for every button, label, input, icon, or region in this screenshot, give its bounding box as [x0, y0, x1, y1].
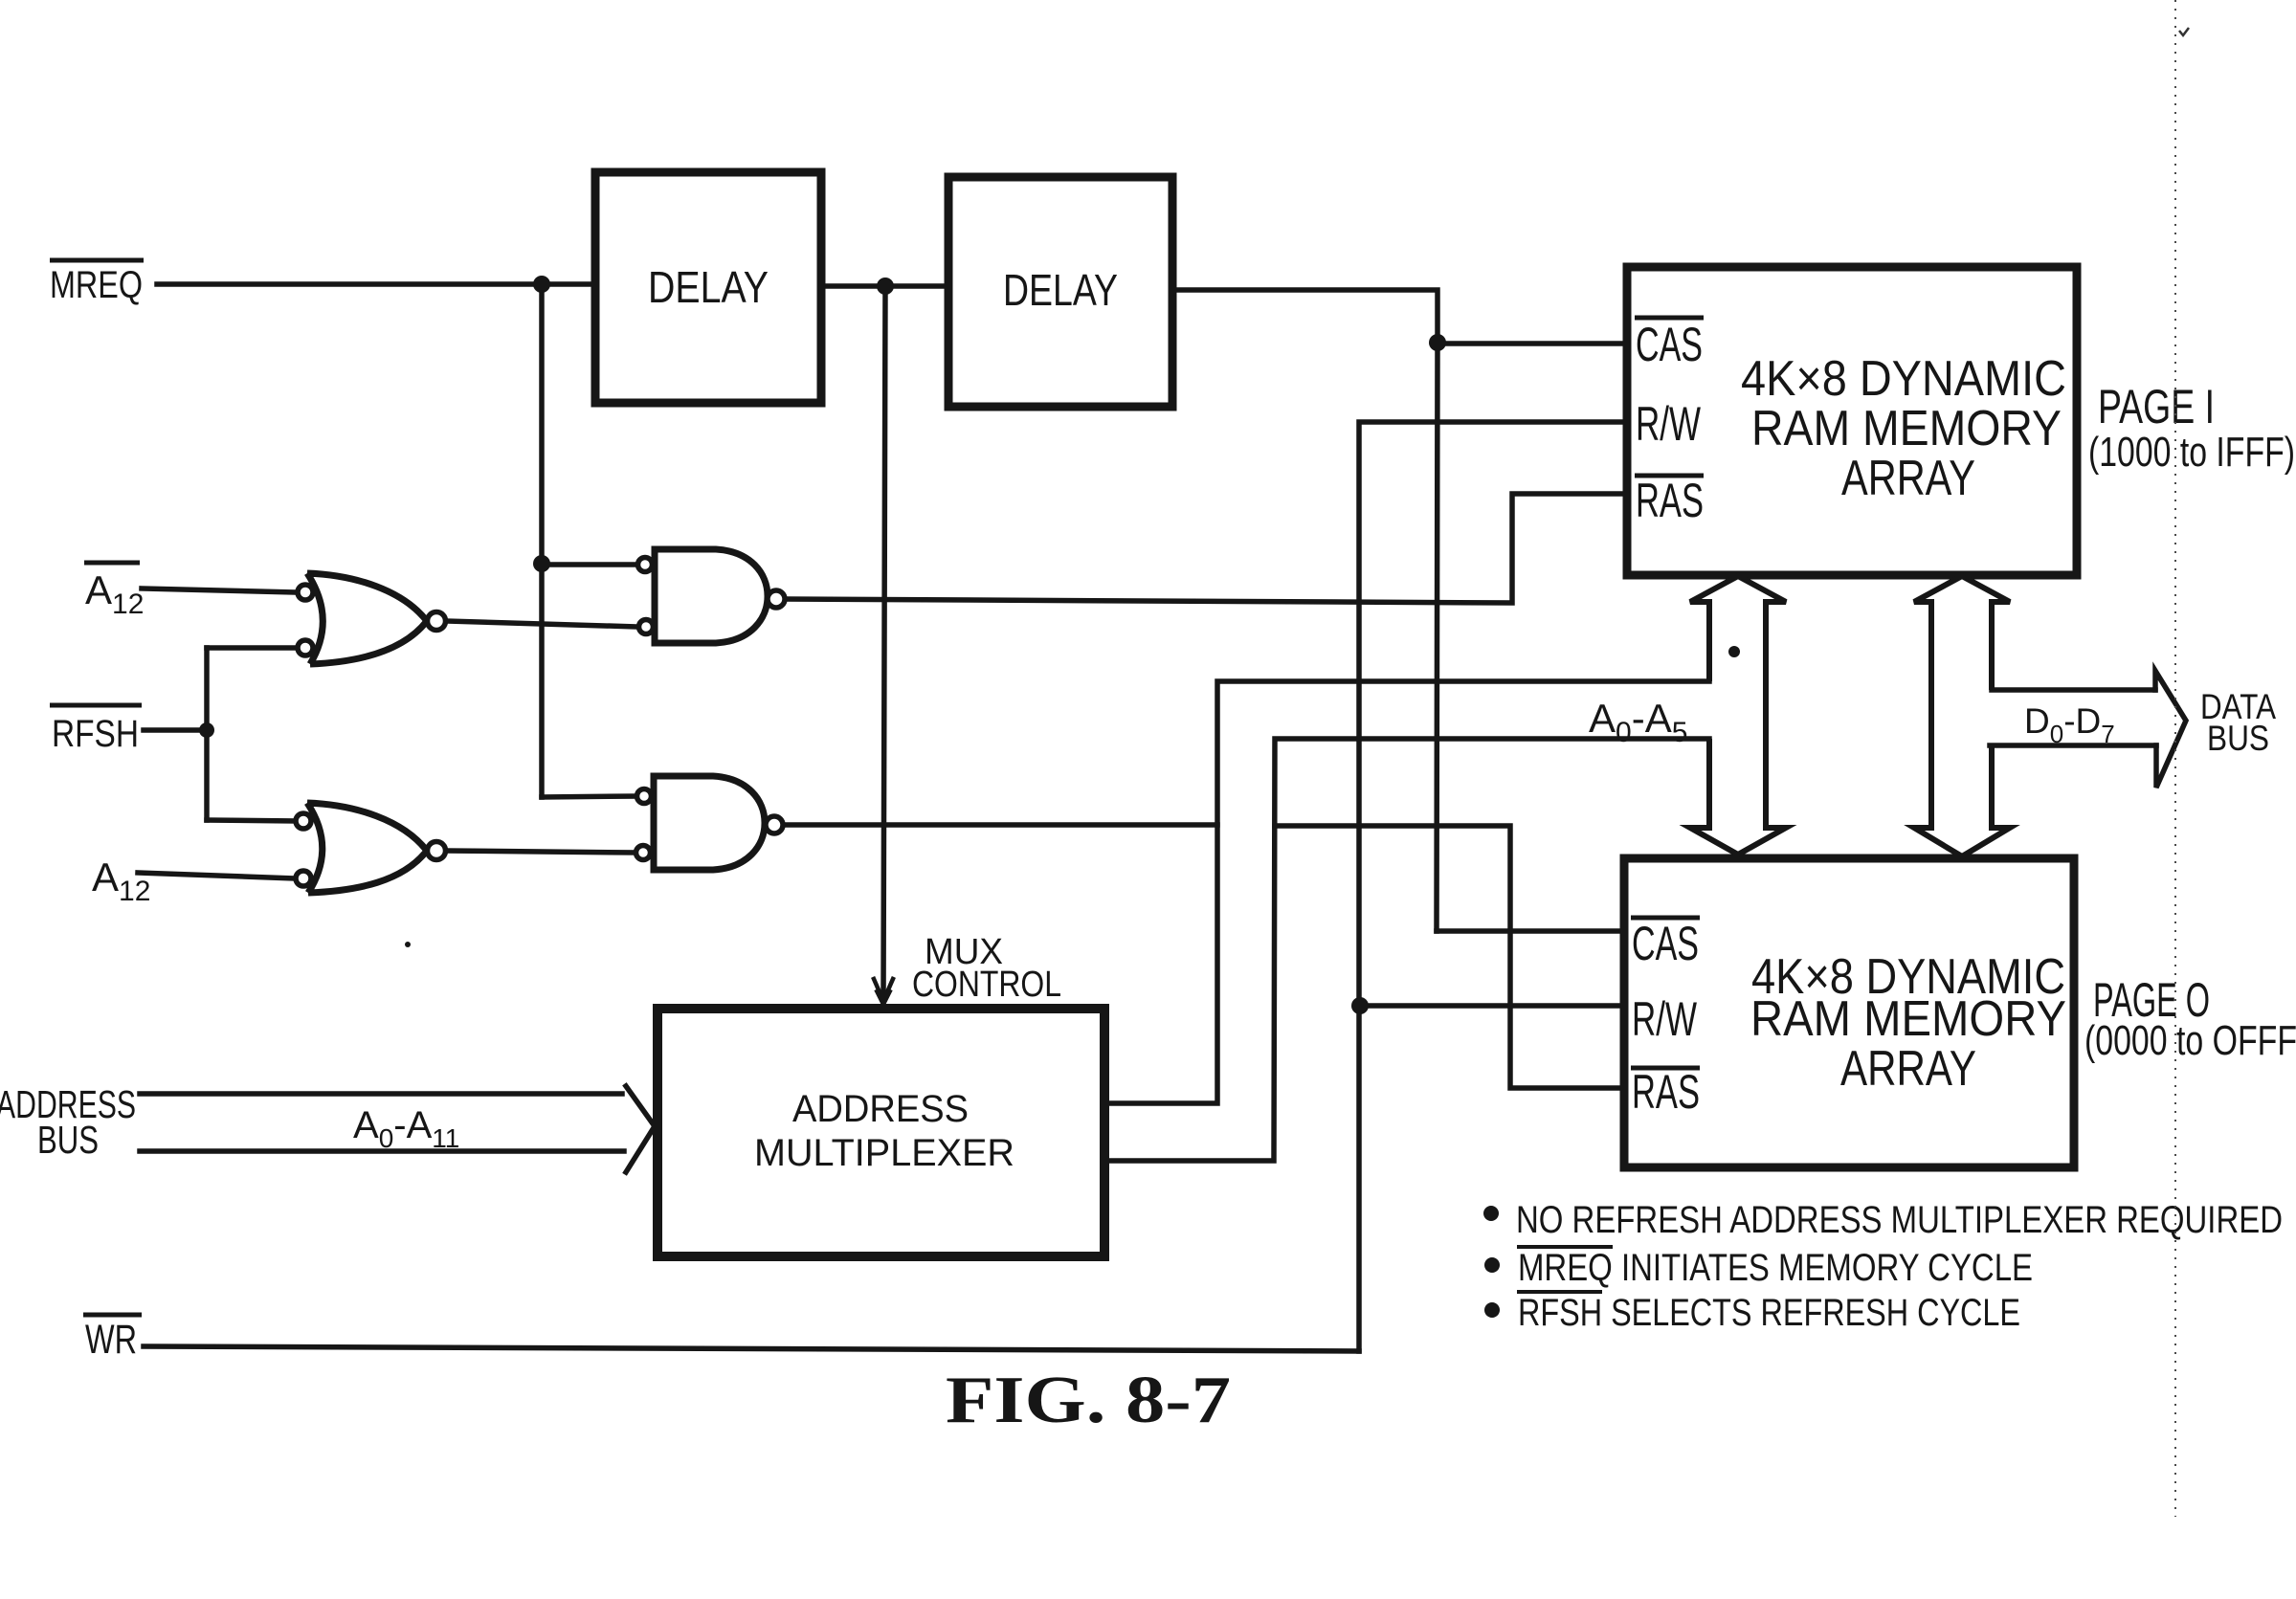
note bullet 3	[1484, 1302, 1500, 1318]
RAM PAGE0 box	[1624, 858, 2074, 1167]
svg-text:DELAY: DELAY	[1003, 265, 1118, 315]
bidirectional bus arrow D (between RAM pages)	[1914, 576, 2010, 856]
svg-text:NO REFRESH ADDRESS MULTIPLEXER: NO REFRESH ADDRESS MULTIPLEXER REQUIRED	[1516, 1199, 2283, 1241]
svg-text:CONTROL: CONTROL	[912, 965, 1061, 1005]
wire CAS PAGE1 pin	[1438, 341, 1627, 346]
wire MUX output2 to bus bottom	[1104, 739, 1709, 1161]
wire CAS PAGE0 pin	[1437, 928, 1624, 934]
note bullet 1	[1483, 1206, 1499, 1221]
svg-text:BUS: BUS	[37, 1118, 99, 1162]
svg-text:ARRAY: ARRAY	[1841, 451, 1975, 506]
scan artifact check mark	[2179, 28, 2189, 35]
svg-text:ARRAY: ARRAY	[1840, 1041, 1976, 1097]
svg-text:(0000 to OFFF: (0000 to OFFF	[2084, 1017, 2296, 1064]
ADDRESS MULTIPLEXER box	[658, 1009, 1104, 1256]
junction on RFSH line	[199, 722, 214, 738]
NOR gate G2 (negated-input OR)	[296, 803, 446, 893]
svg-text:MREQ INITIATES MEMORY CYCLE: MREQ INITIATES MEMORY CYCLE	[1518, 1247, 2033, 1289]
wire NOR1 bottom input stub	[207, 645, 298, 651]
svg-text:DELAY: DELAY	[648, 262, 769, 312]
svg-text:R/W: R/W	[1632, 992, 1698, 1046]
NAND gate G4 (negated-input NAND)	[636, 776, 784, 870]
wire WR horizontal	[144, 1346, 1359, 1351]
svg-text:CAS: CAS	[1636, 318, 1703, 371]
svg-text:4K×8 DYNAMIC: 4K×8 DYNAMIC	[1741, 351, 2066, 407]
junction at NAND1 input branch	[533, 555, 550, 572]
bidirectional bus arrow A (between RAM pages)	[1690, 576, 1786, 855]
wire RFSH vertical	[204, 648, 210, 820]
wire D0-D7 bus top line	[1992, 687, 2155, 693]
wire to PAGE0 RAS	[1275, 826, 1624, 1088]
wire D0-D7 bus bottom line	[1990, 743, 2156, 748]
wire MREQ to DELAY1	[157, 281, 595, 287]
wire NAND2 top input stub	[542, 796, 636, 797]
svg-text:RAM MEMORY: RAM MEMORY	[1750, 991, 2066, 1047]
svg-text:ADDRESS: ADDRESS	[792, 1088, 969, 1130]
wire NAND1 top input stub	[542, 562, 637, 567]
svg-text:(1000 to IFFF): (1000 to IFFF)	[2088, 429, 2295, 476]
RAM PAGE1 box	[1627, 267, 2077, 575]
wire RFSH stub	[144, 727, 207, 733]
wire NAND1 output to PAGE1 RAS	[785, 494, 1627, 603]
svg-text:WR: WR	[85, 1317, 137, 1363]
wire MREQ branch vertical to NAND gates	[539, 284, 545, 797]
NOR gate G1 (negated-input OR)	[298, 573, 446, 664]
junction on MREQ line at DELAY1 branch	[533, 276, 550, 293]
wire NOR2 top input stub	[207, 820, 296, 821]
junction at PAGE0 R/W branch	[1351, 997, 1369, 1014]
svg-text:RAS: RAS	[1636, 474, 1704, 527]
svg-text:MULTIPLEXER: MULTIPLEXER	[754, 1132, 1014, 1174]
stray ink dot	[1728, 646, 1740, 657]
junction after DELAY1	[877, 278, 894, 295]
scan artifact dotted line	[2174, 0, 2176, 1517]
svg-text:PAGE I: PAGE I	[2098, 380, 2215, 433]
wire address bus top line	[140, 1091, 622, 1097]
svg-text:RFSH SELECTS REFRESH CYCLE: RFSH SELECTS REFRESH CYCLE	[1518, 1292, 2020, 1334]
svg-text:CAS: CAS	[1632, 917, 1699, 970]
junction at CAS branch	[1429, 334, 1446, 351]
wire A12bar to NOR1	[142, 589, 298, 592]
svg-text:RAS: RAS	[1632, 1065, 1700, 1119]
NAND gate G3 (negated-input NAND)	[638, 549, 786, 643]
wire NOR1 output to NAND1	[446, 621, 638, 627]
wire DELAY1 to DELAY2	[821, 283, 948, 289]
wire MUX CONTROL vertical	[883, 286, 885, 999]
stray ink speck	[405, 942, 411, 947]
note bullet 2	[1484, 1257, 1500, 1273]
svg-text:FIG. 8-7: FIG. 8-7	[946, 1364, 1231, 1437]
svg-text:RFSH: RFSH	[52, 713, 139, 755]
DATA BUS arrowhead	[2155, 671, 2186, 788]
wire PAGE0 R/W pin	[1360, 1003, 1624, 1009]
wire NAND2 output	[783, 822, 1217, 828]
wire A12 to NOR2	[138, 873, 296, 878]
MUX CONTROL arrowhead	[874, 979, 893, 1001]
DELAY box 2	[948, 177, 1172, 407]
svg-text:R/W: R/W	[1636, 397, 1702, 451]
wire CAS vertical down to PAGE0	[1437, 344, 1438, 931]
svg-text:BUS: BUS	[2207, 719, 2269, 758]
wire DELAY2 output to CAS corner	[1172, 290, 1438, 344]
wire address bus bottom line	[140, 1148, 624, 1154]
DELAY box 1	[595, 172, 821, 403]
svg-text:RAM MEMORY: RAM MEMORY	[1751, 401, 2062, 456]
wire WR vertical to PAGE1 R/W	[1359, 422, 1627, 1351]
svg-text:MREQ: MREQ	[50, 264, 143, 306]
wire MUX output1 to bus top	[1104, 681, 1709, 1103]
address bus arrowhead into MUX	[626, 1086, 655, 1172]
wire NOR2 output to NAND2	[446, 851, 635, 853]
